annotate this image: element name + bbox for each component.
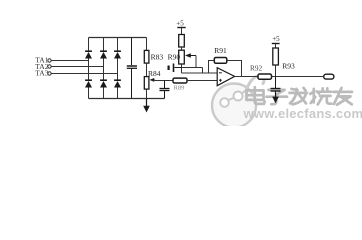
wire TA1 to bridge column 1	[52, 60, 89, 62]
diode D6 bottom of column 3	[114, 80, 121, 87]
wire bridge column 1 upper	[88, 38, 90, 52]
wire bridge column 2 lower	[103, 88, 105, 99]
svg-text:www.elecfans.com: www.elecfans.com	[243, 106, 362, 121]
wire R84 wiper to R85	[153, 79, 174, 82]
resistor R85	[173, 78, 187, 83]
svg-text:R92: R92	[250, 63, 263, 72]
wire R91 left to inverting input	[209, 61, 215, 74]
wire R91 right feedback to output	[227, 61, 242, 77]
diode D2 top of column 2	[100, 51, 107, 58]
watermark logo circle	[212, 76, 264, 128]
wire R92 to output terminal	[272, 76, 324, 78]
terminal TA1	[48, 59, 51, 62]
wire R83 to R84	[146, 63, 148, 77]
svg-text:R84: R84	[148, 69, 161, 78]
wire bridge column 2 middle	[103, 59, 105, 81]
wire top rail drop to R83	[146, 38, 148, 51]
terminal TA3	[48, 72, 51, 75]
resistor R93	[273, 48, 279, 65]
wire R93 to output node	[275, 65, 277, 77]
capacitor C2	[160, 81, 170, 99]
wire bridge column 2 upper	[103, 38, 105, 52]
svg-text:+5: +5	[176, 20, 184, 28]
potentiometer R90	[179, 50, 196, 64]
wire bridge column 1 middle	[88, 59, 90, 81]
wire bridge column 1 lower	[88, 88, 90, 99]
wire R85 to op-amp non-inverting input	[187, 80, 217, 82]
terminal TA2	[48, 65, 51, 68]
power +5 symbol right	[272, 44, 280, 49]
output terminal oval	[324, 74, 334, 79]
wire TA2 to bridge column 2	[52, 66, 104, 68]
svg-text:TA3: TA3	[35, 69, 48, 78]
potentiometer R84	[144, 77, 154, 90]
wire R90 wiper drop	[195, 56, 197, 68]
svg-text:+5: +5	[272, 35, 280, 43]
op-amp U1	[217, 68, 234, 86]
wire TA3 to bridge column 3	[52, 73, 118, 75]
svg-text:R90: R90	[168, 53, 181, 62]
diode D1 top of column 1	[85, 51, 92, 58]
resistor fixed above R90	[179, 35, 185, 48]
power +5 symbol left	[177, 28, 185, 35]
wire R90 bottom node loop	[182, 65, 218, 74]
watermark text dian zi fa shao you (approximated strokes)	[247, 87, 353, 105]
wire bottom rail	[89, 98, 165, 100]
wire op-amp output	[234, 76, 258, 78]
wire top rail	[89, 37, 147, 39]
diode D4 bottom of column 1	[85, 80, 92, 87]
wire bridge column 3 upper	[117, 38, 119, 52]
diode D3 top of column 3	[114, 51, 121, 58]
resistor R83	[144, 50, 149, 63]
ground arrow below rail	[143, 99, 150, 113]
wire bridge column 3 middle	[117, 59, 119, 81]
ground arrow at output node	[272, 92, 279, 104]
capacitor C3 at output node	[271, 77, 281, 92]
resistor R91 feedback	[214, 58, 227, 64]
svg-text:R91: R91	[214, 46, 227, 55]
capacitor C1 filter cap	[127, 38, 137, 99]
svg-text:R93: R93	[282, 61, 295, 70]
resistor R92	[258, 74, 272, 79]
svg-text:R89: R89	[174, 85, 185, 92]
wire bridge column 3 lower	[117, 88, 119, 99]
wire R84 to bottom rail	[146, 89, 148, 98]
capacitor C4 sideways on node	[169, 64, 182, 73]
diode D5 bottom of column 2	[100, 80, 107, 87]
svg-text:R83: R83	[151, 53, 164, 62]
wire between fixed resistor and R90 pot	[181, 47, 183, 51]
